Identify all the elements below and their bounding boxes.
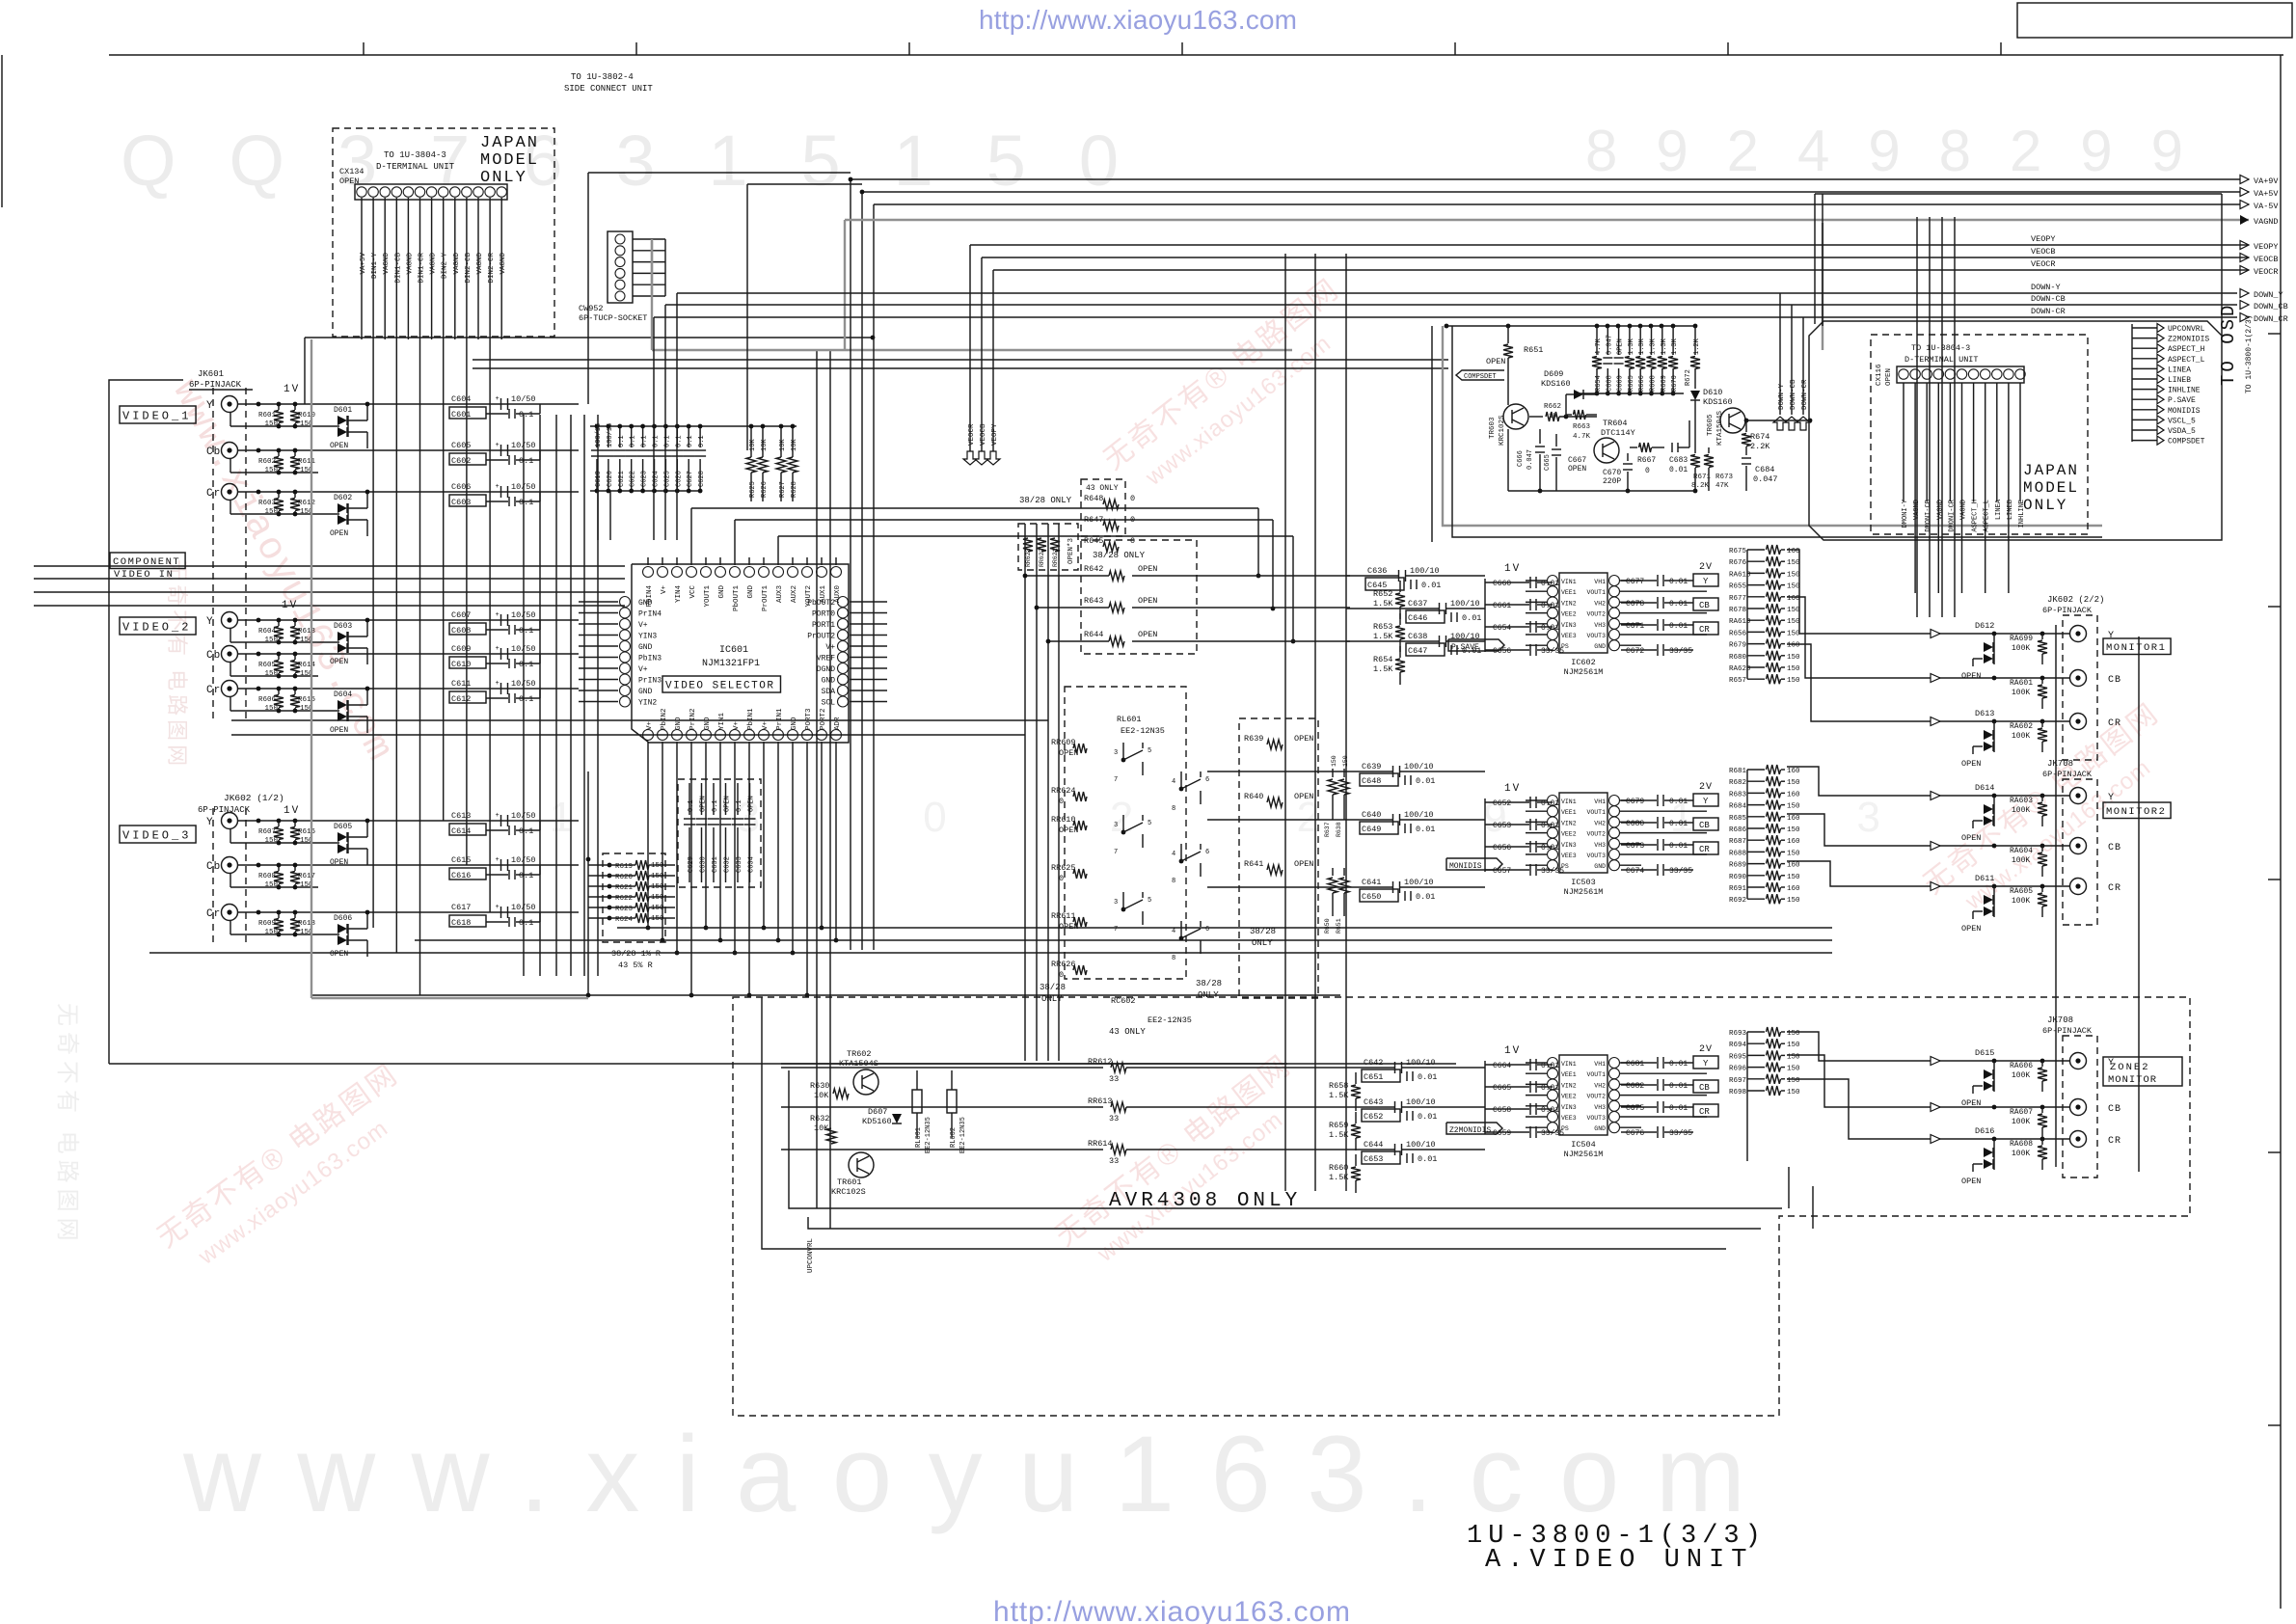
svg-text:0.01: 0.01: [1416, 776, 1435, 786]
svg-text:UPCONVRL: UPCONVRL: [2168, 325, 2205, 334]
svg-text:PrIN1: PrIN1: [776, 708, 784, 730]
svg-text:R601: R601: [258, 412, 277, 420]
svg-text:R652: R652: [1373, 589, 1392, 599]
svg-text:R654: R654: [1595, 375, 1603, 392]
svg-text:C652: C652: [1364, 1112, 1383, 1122]
svg-text:VAGND: VAGND: [1936, 500, 1944, 520]
svg-text:CR: CR: [1699, 1107, 1710, 1117]
svg-text:VH1: VH1: [1594, 579, 1606, 585]
svg-text:D612: D612: [1975, 621, 1994, 631]
svg-text:1.3K: 1.3K: [1650, 338, 1658, 355]
svg-text:10K: 10K: [814, 1091, 829, 1100]
svg-text:RA608: RA608: [2010, 1140, 2033, 1149]
svg-text:R675: R675: [1729, 548, 1747, 555]
svg-text:KTA1504S: KTA1504S: [1716, 410, 1724, 446]
svg-text:VH3: VH3: [1594, 1104, 1606, 1111]
svg-text:RL602: RL602: [950, 1127, 958, 1148]
svg-text:160: 160: [1787, 815, 1800, 823]
svg-text:VCC: VCC: [689, 585, 697, 599]
svg-text:R687: R687: [1729, 838, 1746, 846]
svg-text:OPEN: OPEN: [1138, 564, 1157, 574]
svg-text:MONITOR: MONITOR: [2108, 1074, 2157, 1086]
svg-text:VIDEO_3: VIDEO_3: [122, 829, 191, 843]
svg-text:CR: CR: [2108, 718, 2121, 729]
svg-text:43 ONLY: 43 ONLY: [1086, 484, 1119, 493]
svg-text:PrIN2: PrIN2: [689, 708, 697, 730]
svg-text:R677: R677: [1729, 595, 1746, 603]
svg-text:C619: C619: [595, 471, 603, 487]
svg-text:1.3K: 1.3K: [1628, 338, 1635, 355]
svg-text:1V: 1V: [284, 384, 300, 395]
svg-text:C677: C677: [1626, 578, 1644, 586]
svg-text:ZONE2: ZONE2: [2110, 1062, 2150, 1073]
svg-text:160: 160: [1787, 791, 1800, 798]
svg-text:VSDA_5: VSDA_5: [2168, 427, 2196, 436]
svg-text:C657: C657: [1493, 867, 1511, 876]
svg-text:OPEN: OPEN: [1961, 671, 1981, 681]
svg-text:0: 0: [1130, 536, 1135, 546]
svg-text:EE2-12N35: EE2-12N35: [925, 1117, 932, 1153]
svg-text:6P-PINJACK: 6P-PINJACK: [2042, 606, 2093, 615]
svg-text:0.01: 0.01: [1541, 580, 1559, 588]
svg-text:Y: Y: [2108, 631, 2115, 641]
svg-text:VREF: VREF: [817, 655, 835, 663]
svg-text:2V: 2V: [1699, 562, 1713, 573]
svg-text:0.1: 0.1: [687, 435, 694, 447]
svg-text:TR602: TR602: [847, 1049, 872, 1059]
svg-text:RR625: RR625: [1051, 863, 1076, 873]
svg-text:DIN1-CB: DIN1-CB: [394, 253, 402, 284]
svg-text:C681: C681: [1626, 1060, 1644, 1069]
svg-text:A.VIDEO UNIT: A.VIDEO UNIT: [1485, 1546, 1753, 1575]
svg-text:3: 3: [1114, 749, 1118, 757]
svg-text:100/10: 100/10: [1410, 566, 1440, 576]
svg-text:V+: V+: [733, 720, 741, 730]
svg-text:R694: R694: [1729, 1042, 1747, 1049]
svg-text:GND: GND: [791, 717, 798, 730]
svg-text:RR623: RR623: [1025, 548, 1032, 567]
svg-text:RA699: RA699: [2010, 635, 2033, 643]
svg-text:www.xiaoyu163.com: www.xiaoyu163.com: [182, 1414, 1745, 1534]
svg-text:UPCONVRL: UPCONVRL: [807, 1237, 815, 1273]
svg-text:RA607: RA607: [2010, 1108, 2033, 1117]
svg-text:150: 150: [1787, 1030, 1800, 1038]
svg-text:C665: C665: [1544, 454, 1552, 471]
svg-text:R695: R695: [1729, 1053, 1747, 1061]
svg-text:VIN3: VIN3: [1561, 622, 1577, 629]
svg-text:150: 150: [651, 894, 664, 902]
svg-text:150: 150: [1787, 874, 1800, 881]
svg-text:R655: R655: [1729, 583, 1747, 591]
svg-text:C647: C647: [1408, 646, 1427, 656]
svg-text:TO 1U-3804-3: TO 1U-3804-3: [384, 150, 446, 160]
svg-text:EE2-12N35: EE2-12N35: [1121, 726, 1165, 736]
svg-text:100K: 100K: [2012, 1071, 2030, 1080]
svg-text:RR624: RR624: [1051, 786, 1076, 796]
svg-text:VEE1: VEE1: [1561, 589, 1577, 596]
svg-text:VEE2: VEE2: [1561, 1094, 1577, 1100]
svg-text:R669: R669: [1661, 375, 1668, 392]
svg-text:VOUT2: VOUT2: [1586, 1094, 1606, 1100]
svg-text:RA602: RA602: [2010, 722, 2033, 731]
svg-text:100/10: 100/10: [1450, 599, 1480, 609]
svg-text:KDS160: KDS160: [1541, 379, 1571, 389]
svg-text:R683: R683: [1729, 791, 1747, 798]
svg-text:CB: CB: [1699, 821, 1710, 830]
svg-text:TO 1U-3800-1(2/3): TO 1U-3800-1(2/3): [2245, 314, 2254, 393]
svg-text:6P-PINJACK: 6P-PINJACK: [189, 380, 242, 390]
svg-text:TO OSD: TO OSD: [2218, 303, 2239, 386]
svg-text:C684: C684: [1755, 465, 1774, 474]
svg-text:PbIN2: PbIN2: [661, 708, 668, 730]
svg-text:RL601: RL601: [1117, 715, 1142, 724]
svg-text:C683: C683: [1669, 456, 1688, 465]
svg-text:Cr: Cr: [206, 908, 221, 920]
svg-text:MONITOR1: MONITOR1: [2106, 642, 2166, 654]
svg-text:Y: Y: [1703, 1059, 1709, 1069]
svg-text:R678: R678: [1729, 607, 1746, 614]
svg-text:150: 150: [264, 467, 278, 474]
svg-text:VIN3: VIN3: [1561, 1104, 1577, 1111]
svg-text:KD5160: KD5160: [862, 1117, 892, 1126]
svg-text:VAGND: VAGND: [453, 253, 461, 275]
svg-text:R619: R619: [615, 863, 633, 871]
svg-text:6P-PINJACK: 6P-PINJACK: [198, 805, 251, 815]
svg-text:YOUT1: YOUT1: [704, 585, 712, 608]
svg-text:R690: R690: [1729, 874, 1747, 881]
svg-text:R639: R639: [1244, 734, 1263, 744]
svg-text:R670: R670: [1671, 375, 1679, 392]
svg-text:160: 160: [1787, 768, 1800, 775]
svg-text:0.01: 0.01: [1669, 600, 1688, 609]
svg-text:http://www.xiaoyu163.com: http://www.xiaoyu163.com: [993, 1596, 1350, 1624]
svg-text:CB: CB: [1699, 1083, 1710, 1093]
svg-text:10/50: 10/50: [511, 394, 536, 404]
svg-text:R607: R607: [258, 828, 276, 836]
svg-text:Y: Y: [206, 400, 214, 412]
svg-text:1.5K: 1.5K: [1373, 664, 1393, 674]
svg-text:C644: C644: [1364, 1140, 1383, 1150]
svg-text:C660: C660: [1493, 580, 1511, 588]
svg-text:R673: R673: [1715, 474, 1734, 481]
svg-text:OPEN: OPEN: [1138, 630, 1157, 639]
svg-text:C627: C627: [687, 471, 694, 487]
svg-text:VOUT2: VOUT2: [1586, 831, 1606, 838]
svg-text:VAGND: VAGND: [383, 253, 391, 275]
svg-text:Y: Y: [206, 817, 214, 828]
svg-text:VAGND: VAGND: [430, 253, 438, 275]
svg-text:C603: C603: [451, 498, 471, 507]
svg-text:VEE1: VEE1: [1561, 1071, 1577, 1078]
svg-text:D602: D602: [334, 494, 352, 502]
svg-text:0.1: 0.1: [618, 435, 626, 447]
svg-text:C631: C631: [712, 856, 719, 873]
svg-text:150: 150: [1787, 1066, 1800, 1073]
svg-text:R679: R679: [1729, 642, 1746, 650]
svg-text:0.1: 0.1: [519, 498, 533, 507]
svg-text:ASPECT_L: ASPECT_L: [1984, 500, 1991, 532]
svg-text:150: 150: [1787, 665, 1800, 673]
svg-text:R628: R628: [791, 481, 798, 498]
svg-text:1V: 1V: [284, 805, 300, 817]
svg-text:Cr: Cr: [206, 488, 221, 500]
svg-text:43 ONLY: 43 ONLY: [1109, 1027, 1146, 1037]
svg-text:0.01: 0.01: [1541, 602, 1559, 610]
svg-text:DGND: DGND: [817, 665, 835, 674]
svg-text:38/28 1% R: 38/28 1% R: [611, 949, 661, 959]
svg-text:R605: R605: [258, 662, 277, 669]
svg-text:LINEA: LINEA: [2168, 365, 2191, 374]
svg-text:R608: R608: [258, 873, 276, 880]
svg-text:IC503: IC503: [1571, 878, 1596, 887]
svg-text:VIN2: VIN2: [1561, 1082, 1577, 1089]
svg-text:R641: R641: [1244, 859, 1263, 869]
svg-text:C607: C607: [451, 610, 471, 620]
svg-text:4: 4: [1172, 778, 1175, 786]
svg-text:D610: D610: [1703, 388, 1722, 397]
svg-text:VOUT1: VOUT1: [1586, 1071, 1606, 1078]
svg-text:100/16: 100/16: [595, 423, 603, 447]
svg-text:Cr: Cr: [206, 685, 221, 696]
svg-text:VEOCR: VEOCR: [2254, 267, 2279, 277]
svg-text:VEE2: VEE2: [1561, 611, 1577, 618]
svg-text:COMPSDET: COMPSDET: [1464, 373, 1497, 381]
svg-text:C666: C666: [1517, 450, 1525, 467]
svg-text:0.01: 0.01: [1669, 842, 1688, 851]
svg-text:C646: C646: [1408, 613, 1427, 623]
svg-text:VOUT2: VOUT2: [1586, 611, 1606, 618]
svg-text:R614: R614: [298, 662, 316, 669]
svg-text:150: 150: [1787, 630, 1800, 637]
svg-text:R689: R689: [1729, 862, 1746, 870]
svg-text:150: 150: [264, 636, 278, 644]
svg-text:150: 150: [264, 881, 278, 889]
svg-text:C653: C653: [1493, 822, 1511, 830]
svg-text:GND: GND: [718, 585, 726, 599]
svg-text:R643: R643: [1084, 596, 1103, 606]
svg-text:GND: GND: [638, 643, 653, 652]
svg-text:R644: R644: [1084, 630, 1103, 639]
svg-text:D611: D611: [1975, 874, 1994, 883]
svg-text:OPEN: OPEN: [330, 950, 348, 959]
svg-text:R666: R666: [1638, 375, 1646, 392]
svg-text:R674: R674: [1750, 432, 1769, 442]
svg-text:R651: R651: [1336, 918, 1342, 934]
svg-text:33/35: 33/35: [1541, 647, 1564, 656]
svg-text:V+: V+: [638, 621, 648, 630]
svg-text:+: +: [496, 856, 500, 864]
svg-text:DOWN-CR: DOWN-CR: [1801, 379, 1809, 410]
svg-text:160: 160: [1787, 862, 1800, 870]
svg-text:R681: R681: [1729, 768, 1747, 775]
svg-text:RR613: RR613: [1088, 1096, 1113, 1106]
svg-text:NJM2561M: NJM2561M: [1564, 667, 1604, 677]
svg-text:VA+5V: VA+5V: [2254, 189, 2279, 199]
svg-text:0.01: 0.01: [1541, 799, 1559, 808]
svg-text:100K: 100K: [2012, 644, 2030, 653]
svg-text:C651: C651: [1364, 1072, 1383, 1082]
svg-text:无奇不有 电路图网: 无奇不有 电路图网: [54, 1003, 80, 1247]
svg-text:100/10: 100/10: [1406, 1140, 1436, 1150]
svg-text:10K: 10K: [779, 439, 787, 451]
svg-text:D614: D614: [1975, 783, 1994, 793]
svg-text:3: 3: [1114, 822, 1118, 829]
svg-text:0.01: 0.01: [1462, 613, 1481, 623]
svg-text:VEOCB: VEOCB: [2031, 247, 2056, 257]
svg-text:RL601: RL601: [915, 1127, 923, 1148]
svg-text:C672: C672: [1626, 647, 1644, 656]
svg-text:Cb: Cb: [206, 650, 221, 662]
svg-text:VEE3: VEE3: [1561, 853, 1577, 859]
svg-text:C675: C675: [1626, 1104, 1644, 1113]
svg-text:R611: R611: [298, 458, 316, 466]
svg-text:0.047: 0.047: [1753, 474, 1778, 484]
svg-text:OPEN: OPEN: [700, 796, 708, 812]
svg-text:2V: 2V: [1699, 782, 1713, 793]
svg-text:VH3: VH3: [1594, 842, 1606, 849]
svg-text:GND: GND: [675, 717, 683, 730]
svg-text:160: 160: [1787, 885, 1800, 893]
svg-text:C676: C676: [1626, 1129, 1644, 1138]
svg-text:R620: R620: [615, 874, 634, 881]
svg-text:D607: D607: [868, 1107, 887, 1117]
svg-text:100K: 100K: [2012, 856, 2030, 865]
svg-text:0.01: 0.01: [1418, 1154, 1437, 1164]
svg-text:150: 150: [264, 837, 278, 845]
svg-text:VEE3: VEE3: [1561, 1115, 1577, 1122]
svg-text:150: 150: [1787, 1042, 1800, 1049]
svg-text:0: 0: [1059, 970, 1064, 980]
svg-text:VAGND: VAGND: [406, 253, 414, 275]
svg-text:OPEN: OPEN: [748, 796, 756, 812]
svg-text:0.1: 0.1: [698, 435, 706, 447]
svg-text:0.01: 0.01: [1669, 1082, 1688, 1091]
svg-text:0.047: 0.047: [1526, 449, 1534, 470]
svg-text:VEOCR: VEOCR: [2031, 259, 2056, 269]
svg-text:CB: CB: [1699, 601, 1710, 610]
svg-text:VA+5V: VA+5V: [360, 253, 367, 275]
svg-text:0.1: 0.1: [519, 456, 533, 466]
svg-text:150: 150: [1787, 897, 1800, 905]
svg-text:150: 150: [1331, 755, 1337, 767]
svg-text:C678: C678: [1626, 600, 1644, 609]
svg-text:D-TERMINAL UNIT: D-TERMINAL UNIT: [1904, 355, 1979, 365]
svg-text:VEOCR: VEOCR: [968, 423, 976, 446]
svg-text:C609: C609: [451, 644, 471, 654]
svg-text:VAGND: VAGND: [2254, 217, 2279, 227]
svg-text:8.2K: 8.2K: [1691, 482, 1710, 490]
svg-text:R603: R603: [258, 500, 277, 507]
svg-text:0: 0: [1059, 797, 1064, 806]
svg-text:R626: R626: [761, 481, 769, 498]
svg-text:AUX2: AUX2: [791, 585, 798, 603]
svg-text:C628: C628: [698, 471, 706, 487]
svg-text:100K: 100K: [2012, 689, 2030, 697]
svg-text:D609: D609: [1544, 369, 1563, 379]
svg-text:38/28 ONLY: 38/28 ONLY: [1019, 496, 1072, 505]
svg-text:150: 150: [1787, 559, 1800, 567]
svg-text:R617: R617: [298, 873, 315, 880]
svg-text:PbOUT2: PbOUT2: [807, 599, 835, 608]
svg-text:MONIDIS: MONIDIS: [1449, 862, 1482, 871]
svg-text:C637: C637: [1408, 599, 1427, 609]
svg-text:892498299: 892498299: [1585, 119, 2183, 183]
svg-text:4: 4: [1172, 851, 1175, 858]
svg-text:R665: R665: [1628, 375, 1635, 392]
svg-text:VIDEO SELECTOR: VIDEO SELECTOR: [665, 681, 774, 692]
svg-text:SIDE CONNECT UNIT: SIDE CONNECT UNIT: [564, 84, 653, 94]
svg-text:0.01: 0.01: [1416, 892, 1435, 902]
svg-text:GND: GND: [638, 599, 653, 608]
svg-text:CX116: CX116: [1876, 364, 1883, 386]
svg-text:C632: C632: [724, 856, 732, 873]
svg-text:MONIDIS: MONIDIS: [2168, 407, 2201, 416]
svg-text:2V: 2V: [1699, 1044, 1713, 1055]
svg-text:RR609: RR609: [1051, 738, 1076, 747]
svg-text:33/35: 33/35: [1541, 1129, 1564, 1138]
svg-text:150: 150: [1787, 779, 1800, 787]
svg-text:PORT0: PORT0: [812, 610, 835, 619]
svg-text:Y: Y: [1703, 577, 1709, 586]
svg-text:33/35: 33/35: [1541, 867, 1564, 876]
svg-text:YIN2: YIN2: [638, 699, 657, 708]
svg-text:R658: R658: [1329, 1081, 1348, 1091]
svg-text:0.01: 0.01: [1669, 820, 1688, 828]
svg-text:TO 1U-3802-4: TO 1U-3802-4: [571, 72, 634, 82]
svg-text:0.1: 0.1: [688, 799, 695, 812]
svg-text:JAPAN: JAPAN: [480, 134, 539, 152]
svg-text:OPEN: OPEN: [1138, 596, 1157, 606]
svg-text:OPEN: OPEN: [724, 796, 732, 812]
svg-text:150: 150: [1787, 607, 1800, 614]
svg-text:150: 150: [1787, 583, 1800, 591]
svg-text:OPEN: OPEN: [1885, 368, 1893, 386]
svg-text:AUX3: AUX3: [776, 585, 784, 604]
svg-text:R663: R663: [1573, 423, 1591, 431]
svg-text:V+: V+: [762, 720, 770, 730]
svg-text:43 5% R: 43 5% R: [618, 961, 653, 970]
svg-text:VIN1: VIN1: [1561, 798, 1577, 805]
svg-text:5: 5: [1148, 820, 1151, 827]
svg-text:+: +: [496, 812, 500, 820]
svg-text:38/28 ONLY: 38/28 ONLY: [1093, 551, 1146, 560]
svg-text:PbIN1: PbIN1: [747, 708, 755, 730]
svg-text:R630: R630: [810, 1081, 829, 1091]
svg-text:DOWN_CB: DOWN_CB: [2254, 302, 2288, 311]
svg-text:R638: R638: [1336, 822, 1342, 837]
svg-text:Y: Y: [206, 616, 214, 628]
svg-text:DIN2-Y: DIN2-Y: [442, 253, 449, 280]
svg-text:YIN3: YIN3: [638, 633, 657, 641]
svg-text:R625: R625: [749, 481, 757, 498]
svg-text:0.01: 0.01: [1541, 1106, 1559, 1115]
svg-text:1.5K: 1.5K: [1373, 599, 1393, 609]
svg-text:C674: C674: [1626, 867, 1644, 876]
svg-text:OPEN: OPEN: [330, 442, 348, 450]
svg-text:0.1: 0.1: [519, 626, 533, 636]
svg-text:OPEN: OPEN: [1961, 759, 1981, 769]
svg-text:VEE2: VEE2: [1561, 831, 1577, 838]
svg-text:R622: R622: [615, 895, 633, 903]
svg-text:0: 0: [1645, 467, 1650, 475]
svg-text:R609: R609: [258, 920, 276, 928]
svg-text:VIN1: VIN1: [1561, 579, 1577, 585]
svg-text:C612: C612: [451, 694, 471, 704]
svg-text:VOUT3: VOUT3: [1586, 853, 1606, 859]
svg-text:0.047: 0.047: [1606, 335, 1613, 355]
svg-text:1.3K: 1.3K: [1638, 338, 1646, 355]
svg-text:RA606: RA606: [2010, 1062, 2033, 1070]
